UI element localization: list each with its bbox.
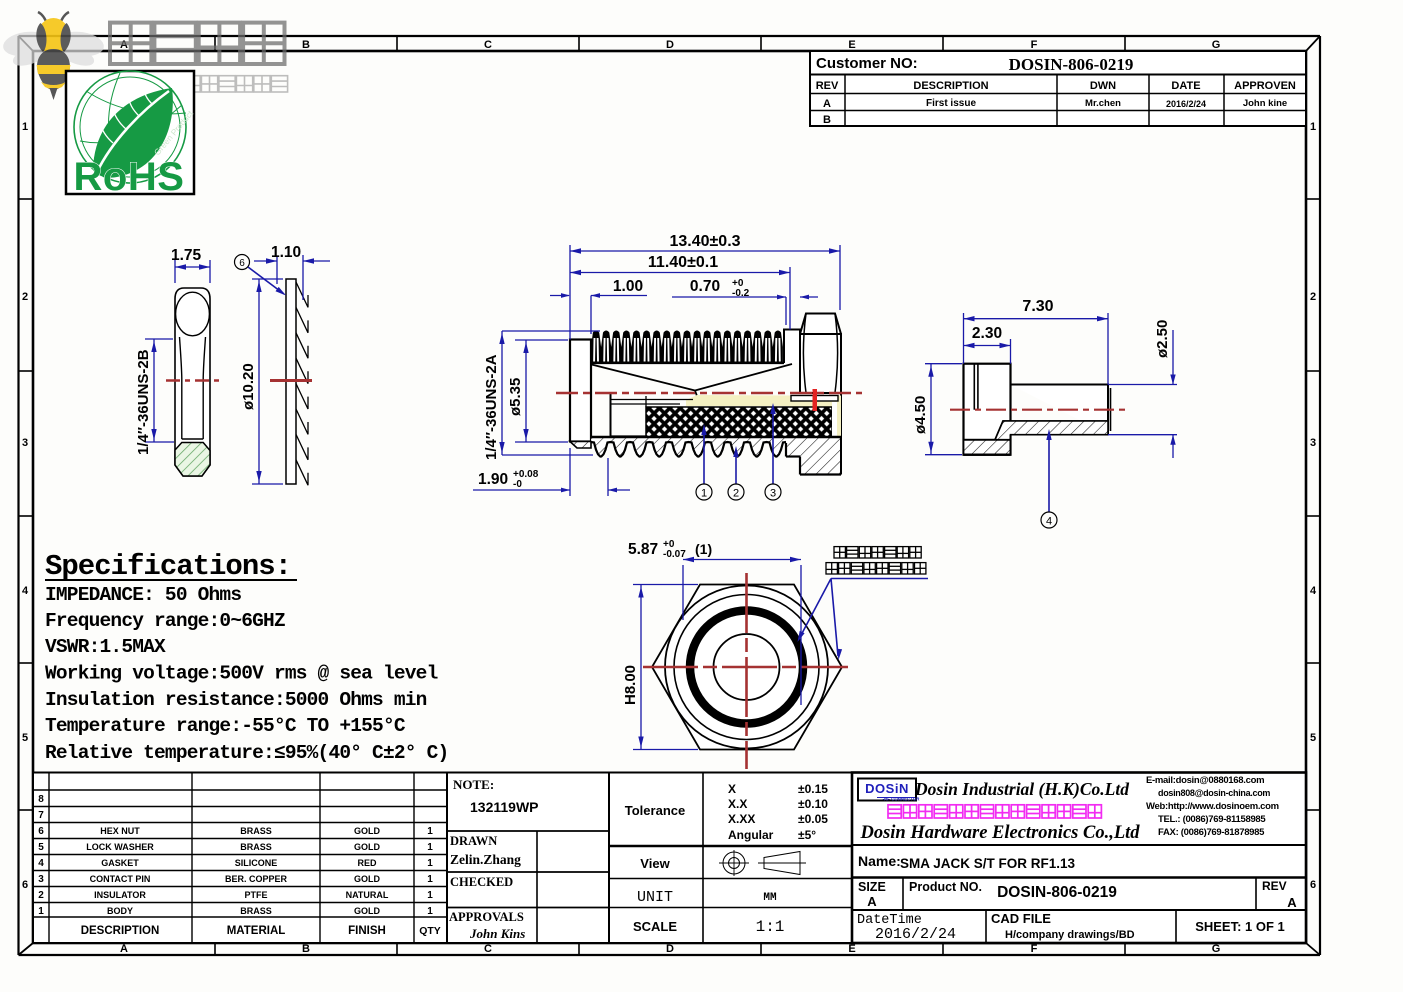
svg-text:D: D [666, 943, 674, 955]
body screw part view (item 4 region) [912, 298, 1177, 528]
svg-text:2: 2 [1310, 291, 1316, 303]
dim 1.90 [473, 448, 630, 496]
svg-text:1: 1 [427, 890, 433, 901]
svg-text:ø5.35: ø5.35 [507, 378, 524, 416]
svg-text:DWN: DWN [1090, 80, 1116, 92]
specifications text [45, 550, 448, 764]
svg-text:1.75: 1.75 [171, 247, 202, 264]
svg-text:dosin808@dosin-china.com: dosin808@dosin-china.com [1158, 788, 1270, 798]
pin socket slot lines [611, 399, 693, 401]
pin centerline [166, 379, 220, 382]
watermark logo bee [2, 12, 106, 100]
svg-text:X: X [728, 782, 736, 796]
svg-text:REV: REV [816, 80, 839, 92]
svg-text:6: 6 [22, 879, 28, 891]
svg-text:1.90: 1.90 [478, 471, 508, 488]
svg-text:Relative temperature:≤95%(40°: Relative temperature:≤95%(40° C±2° C) [45, 742, 448, 764]
svg-text:DOSiN: DOSiN [865, 781, 909, 796]
svg-text:B: B [302, 943, 310, 955]
svg-text:-0.07: -0.07 [663, 549, 686, 560]
contact pin view (item 3) [135, 247, 220, 476]
svg-text:1/4″-36UNS-2B: 1/4″-36UNS-2B [135, 349, 152, 455]
company title block [852, 773, 1306, 944]
svg-text:132119WP: 132119WP [470, 799, 539, 815]
svg-text:E-mail:dosin@0880168.com: E-mail:dosin@0880168.com [1146, 775, 1264, 786]
svg-text:Zelin.Zhang: Zelin.Zhang [450, 852, 521, 867]
svg-text:A: A [120, 943, 128, 955]
svg-text:F: F [1031, 943, 1038, 955]
svg-text:Customer NO:: Customer NO: [816, 55, 918, 72]
svg-text:G: G [1212, 39, 1221, 51]
contact pin in section (yellow) [686, 395, 788, 406]
svg-text:CAD FILE: CAD FILE [991, 911, 1051, 926]
svg-text:A: A [1287, 895, 1297, 910]
svg-text:±0.15: ±0.15 [798, 782, 828, 796]
svg-text:(1): (1) [695, 541, 712, 557]
svg-text:ø4.50: ø4.50 [912, 396, 929, 434]
svg-text:SILICONE: SILICONE [235, 858, 278, 868]
external thread 1/4-36UNS-2A [591, 331, 783, 364]
note text (chinese) [834, 547, 845, 558]
svg-text:±5°: ±5° [798, 828, 816, 842]
svg-text:SCALE: SCALE [633, 919, 677, 934]
svg-text:John Kins: John Kins [469, 926, 525, 941]
svg-text:13.40±0.3: 13.40±0.3 [669, 233, 740, 250]
svg-text:DESCRIPTION: DESCRIPTION [913, 80, 988, 92]
svg-text:X.X: X.X [728, 797, 747, 811]
svg-text:DOSIN-806-0219: DOSIN-806-0219 [997, 884, 1117, 901]
hex nut (item 6 area) [800, 314, 841, 438]
svg-text:H/company drawings/BD: H/company drawings/BD [1005, 929, 1135, 941]
svg-text:Web:http://www.dosinoem.com: Web:http://www.dosinoem.com [1146, 801, 1279, 812]
svg-text:MM: MM [763, 892, 777, 904]
svg-text:DATE: DATE [1171, 80, 1200, 92]
svg-text:GOLD: GOLD [354, 842, 380, 852]
svg-text:BRASS: BRASS [240, 842, 272, 852]
svg-text:A: A [867, 894, 877, 909]
svg-text:4: 4 [1046, 516, 1052, 528]
svg-text:1:1: 1:1 [756, 918, 785, 936]
lock washer view (item 6) [235, 244, 331, 485]
svg-text:FINISH: FINISH [348, 925, 386, 937]
watermark text 电蜂优选 [110, 23, 285, 64]
dim 5.87 [628, 539, 801, 705]
svg-text:BODY: BODY [107, 906, 133, 916]
svg-text:1: 1 [427, 826, 433, 837]
svg-text:2016/2/24: 2016/2/24 [1166, 99, 1206, 109]
dim 0.70 [672, 278, 818, 325]
svg-text:X.XX: X.XX [728, 812, 755, 826]
svg-text:John kine: John kine [1243, 98, 1287, 109]
svg-text:5: 5 [38, 842, 44, 853]
svg-text:GOLD: GOLD [354, 906, 380, 916]
svg-text:6: 6 [1310, 879, 1316, 891]
svg-text:NOTE:: NOTE: [453, 777, 494, 792]
svg-text:Working voltage:500V rms @ sea: Working voltage:500V rms @ sea level [45, 663, 438, 685]
svg-text:1: 1 [427, 906, 433, 917]
dim 1.10 [254, 244, 330, 300]
svg-text:0.70: 0.70 [690, 278, 720, 295]
dim 1.75 [171, 247, 210, 283]
svg-text:Dosin Industrial (H.K)Co.Ltd: Dosin Industrial (H.K)Co.Ltd [914, 779, 1129, 799]
svg-text:MATERIAL: MATERIAL [227, 925, 286, 937]
svg-text:-0: -0 [513, 479, 522, 490]
dim 13.40 [570, 233, 840, 340]
dim 2.30 [964, 325, 1011, 364]
svg-text:ø10.20: ø10.20 [240, 363, 257, 410]
svg-text:View: View [640, 856, 670, 871]
svg-text:First issue: First issue [926, 98, 976, 109]
svg-text:SHEET: 1 OF 1: SHEET: 1 OF 1 [1195, 919, 1285, 934]
svg-text:1: 1 [427, 874, 433, 885]
dim 11.40 [570, 254, 790, 330]
svg-text:C: C [484, 943, 492, 955]
svg-text:2.30: 2.30 [972, 325, 1002, 342]
svg-text:BRASS: BRASS [240, 826, 272, 836]
svg-text:3: 3 [770, 488, 776, 500]
svg-text:BER. COPPER: BER. COPPER [225, 874, 288, 884]
svg-text:Dosin Hardware Electronics Co.: Dosin Hardware Electronics Co.,Ltd [859, 823, 1140, 843]
svg-text:11.40±0.1: 11.40±0.1 [648, 254, 718, 271]
svg-text:ø2.50: ø2.50 [1154, 320, 1171, 358]
svg-text:G: G [1212, 943, 1221, 955]
PTFE insulator crosshatch (item 2) [646, 407, 832, 437]
svg-text:RoHS: RoHS [74, 155, 185, 199]
main centerline [556, 392, 862, 394]
internal taper bore [592, 365, 696, 391]
svg-text:-0.2: -0.2 [732, 288, 750, 299]
svg-text:3: 3 [38, 874, 44, 885]
svg-text:1/4″-36UNS-2A: 1/4″-36UNS-2A [483, 354, 500, 460]
svg-text:FAX: (0086)769-81878985: FAX: (0086)769-81878985 [1158, 827, 1265, 838]
svg-text:BRASS: BRASS [240, 906, 272, 916]
hex face view [622, 539, 928, 769]
note / approvals block [447, 773, 609, 944]
svg-text:CONTACT PIN: CONTACT PIN [90, 874, 151, 884]
svg-text:HEX NUT: HEX NUT [100, 826, 140, 836]
svg-text:7.30: 7.30 [1022, 298, 1053, 315]
svg-text:8: 8 [38, 794, 44, 805]
dim dia 10.20 [240, 279, 283, 484]
svg-text:DRAWN: DRAWN [450, 834, 497, 848]
svg-text:LOCK WASHER: LOCK WASHER [86, 842, 154, 852]
svg-text:CHECKED: CHECKED [450, 875, 513, 889]
svg-text:GOLD: GOLD [354, 826, 380, 836]
dim H8.00 [622, 585, 698, 750]
svg-text:SMA JACK S/T FOR RF1.13: SMA JACK S/T FOR RF1.13 [900, 856, 1076, 871]
svg-text:C: C [484, 39, 492, 51]
svg-text:Name:: Name: [858, 853, 901, 869]
svg-text:QTY: QTY [419, 925, 441, 937]
svg-text:1: 1 [1310, 121, 1316, 133]
svg-text:±0.10: ±0.10 [798, 797, 828, 811]
svg-text:Specifications:: Specifications: [45, 550, 291, 583]
svg-text:Frequency range:0~6GHZ: Frequency range:0~6GHZ [45, 610, 285, 632]
svg-text:3: 3 [1310, 437, 1316, 449]
svg-text:6: 6 [239, 258, 245, 269]
magenta company name [888, 805, 901, 818]
svg-text:2016/2/24: 2016/2/24 [875, 926, 956, 943]
svg-text:NATURAL: NATURAL [346, 890, 389, 900]
callouts 1 2 3 [703, 430, 705, 484]
svg-text:F: F [1031, 39, 1038, 51]
svg-text:7: 7 [38, 810, 44, 821]
svg-text:SIZE: SIZE [858, 880, 886, 894]
svg-text:TEL.: (0086)769-81158985: TEL.: (0086)769-81158985 [1158, 814, 1266, 825]
svg-text:5: 5 [1310, 732, 1316, 744]
svg-text:5.87: 5.87 [628, 541, 658, 558]
svg-text:1.10: 1.10 [271, 244, 301, 261]
lock washer in section [791, 396, 838, 402]
svg-text:PTFE: PTFE [244, 890, 267, 900]
svg-text:4: 4 [1310, 585, 1317, 597]
svg-text:1: 1 [427, 842, 433, 853]
svg-text:B: B [302, 39, 310, 51]
svg-text:GASKET: GASKET [101, 858, 139, 868]
dim thread 2A [483, 331, 600, 460]
RoHS logo [66, 71, 195, 199]
svg-text:Angular: Angular [728, 828, 774, 842]
unthreaded shank [784, 330, 800, 364]
BOM table [33, 773, 447, 944]
svg-text:Temperature range:-55°C TO +15: Temperature range:-55°C TO +155°C [45, 715, 406, 737]
svg-text:2: 2 [22, 291, 28, 303]
svg-text:4: 4 [38, 858, 44, 869]
svg-text:APPROVEN: APPROVEN [1234, 80, 1296, 92]
revision table [810, 51, 1306, 126]
svg-text:Insulation resistance:5000 Ohm: Insulation resistance:5000 Ohms min [45, 689, 427, 711]
svg-text:6: 6 [38, 826, 44, 837]
svg-text:D: D [666, 39, 674, 51]
svg-text:2: 2 [733, 488, 739, 500]
svg-text:Product NO.: Product NO. [909, 880, 982, 894]
main assembly section view [473, 233, 862, 500]
svg-text:2: 2 [38, 890, 44, 901]
callout 6 [235, 255, 250, 270]
svg-text:E: E [848, 943, 855, 955]
watermark subtitle [114, 76, 288, 92]
svg-text:4: 4 [22, 585, 29, 597]
svg-text:1: 1 [701, 488, 707, 500]
svg-text:APPROVALS: APPROVALS [449, 910, 524, 924]
tolerance / view / unit / scale [609, 773, 852, 944]
svg-text:IMPEDANCE: 50 Ohms: IMPEDANCE: 50 Ohms [45, 584, 241, 606]
svg-text:Mr.chen: Mr.chen [1085, 98, 1121, 109]
svg-text:1: 1 [22, 121, 28, 133]
svg-text:A: A [823, 98, 831, 110]
dim dia 4.50 [912, 364, 962, 455]
body front flange [570, 340, 591, 442]
svg-text:E: E [848, 39, 855, 51]
svg-text:H8.00: H8.00 [622, 665, 639, 705]
body rear plate with panel thread [591, 437, 841, 475]
svg-text:REV: REV [1262, 879, 1287, 893]
svg-text:±0.05: ±0.05 [798, 812, 828, 826]
flange chamfer section [570, 442, 591, 449]
svg-text:RED: RED [357, 858, 377, 868]
svg-text:1.00: 1.00 [613, 278, 643, 295]
svg-text:5: 5 [22, 732, 28, 744]
svg-text:1: 1 [427, 858, 433, 869]
svg-text:DOSIN-806-0219: DOSIN-806-0219 [1009, 55, 1134, 74]
svg-text:UNIT: UNIT [637, 889, 673, 906]
svg-text:VSWR:1.5MAX: VSWR:1.5MAX [45, 636, 166, 658]
callout 4 [1048, 436, 1050, 512]
svg-text:GOLD: GOLD [354, 874, 380, 884]
dim dia 5.35 [507, 340, 568, 442]
svg-text:Tolerance: Tolerance [625, 803, 685, 818]
dim 1.00 [550, 278, 647, 334]
svg-text:3: 3 [22, 437, 28, 449]
dim dia 2.50 [1108, 320, 1177, 458]
silicone gasket (item 4, red) [813, 389, 818, 411]
svg-text:INSULATOR: INSULATOR [94, 890, 146, 900]
svg-text:B: B [823, 114, 831, 126]
dim 7.30 [964, 298, 1109, 385]
dim thread 2B [135, 339, 174, 455]
svg-text:DESCRIPTION: DESCRIPTION [81, 925, 160, 937]
svg-text:1: 1 [38, 906, 44, 917]
